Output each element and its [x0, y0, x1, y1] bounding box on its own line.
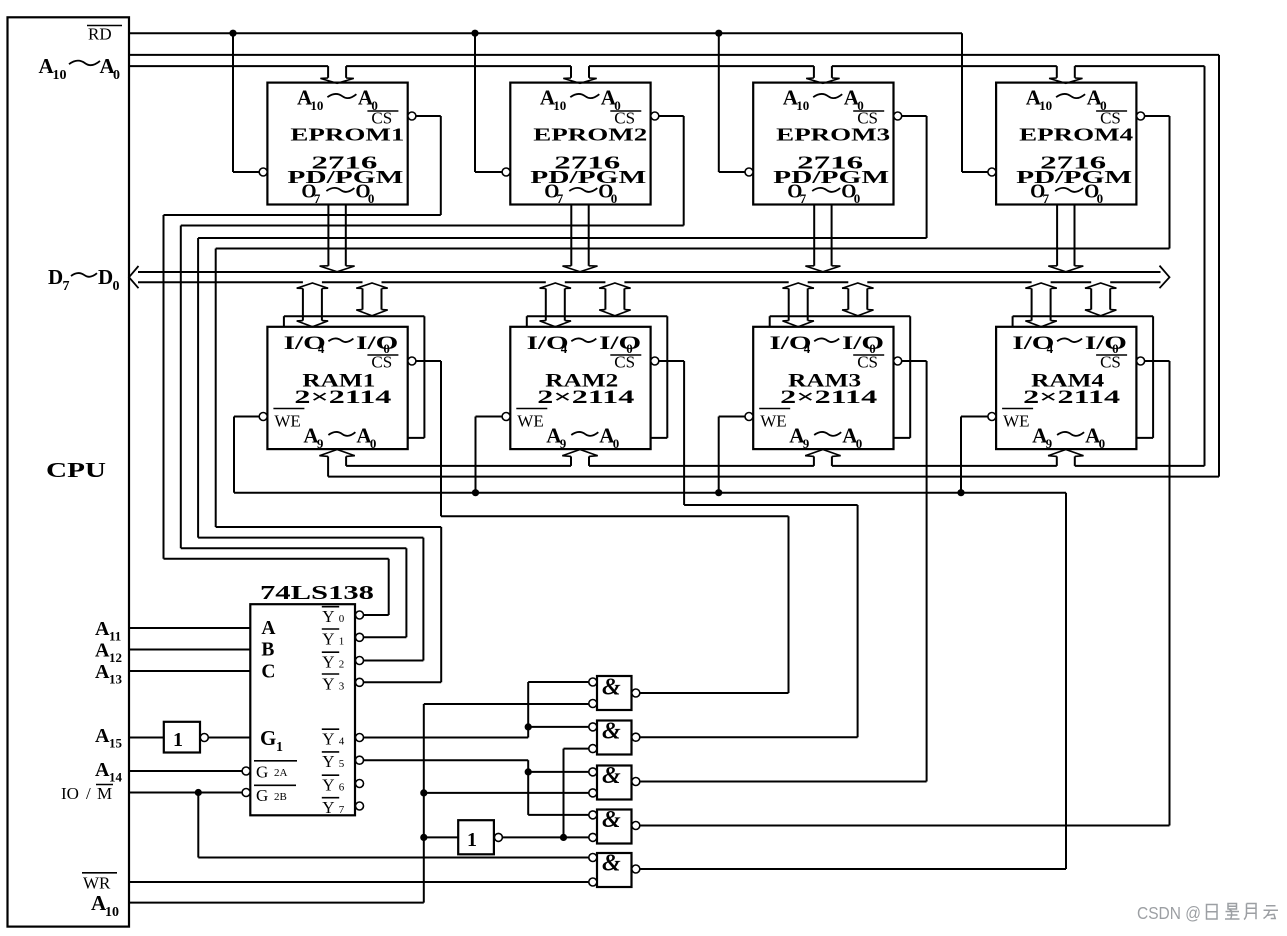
- label A15: [95, 725, 123, 751]
- wire EPROM4 CS to decoder Y3: [216, 116, 1170, 682]
- wire RD drop to EPROM4 PD/PGM: [962, 33, 988, 172]
- svg-text:C: C: [261, 662, 275, 683]
- 74LS138 Y3 output bubble: [356, 678, 364, 686]
- svg-text:CSDN @: CSDN @: [1137, 903, 1201, 923]
- RAM3 CS bubble: [894, 357, 902, 365]
- EPROM1 2716: [267, 83, 407, 206]
- svg-text:2B: 2B: [274, 791, 287, 803]
- svg-text:EPROM4: EPROM4: [1019, 125, 1133, 145]
- label CPU: [46, 458, 106, 482]
- 74LS138 G2A input bubble: [242, 767, 250, 775]
- gate G4 input 2 bubble: [589, 833, 597, 841]
- gate G3 output bubble: [632, 778, 640, 786]
- svg-text:Y: Y: [322, 629, 334, 648]
- wire A15 to inverter U1: [129, 737, 164, 739]
- RAM3 2x2114: [753, 327, 893, 451]
- RAM3 bidirectional data arrow 1: [783, 283, 814, 327]
- svg-text:Y: Y: [322, 752, 334, 771]
- svg-text:7: 7: [339, 804, 345, 816]
- label A11: [95, 618, 121, 644]
- svg-text:I/O: I/O: [599, 333, 641, 354]
- bus D left arrowhead at CPU: [129, 266, 139, 288]
- svg-text:G: G: [256, 763, 268, 782]
- RAM2 CS bubble: [651, 357, 659, 365]
- EPROM3 CS bubble: [894, 112, 902, 120]
- RAM1 WE bubble: [259, 413, 267, 421]
- RAM4 internal bus link wire: [1013, 316, 1154, 438]
- AND gate G2: [597, 719, 632, 755]
- EPROM2 2716: [510, 83, 650, 206]
- junction A10 to gate3 input: [420, 789, 427, 796]
- wire WE common line to gate 5: [234, 493, 1066, 869]
- wire EPROM3 CS to decoder Y2: [198, 116, 927, 661]
- svg-text:14: 14: [109, 770, 123, 785]
- svg-text:10: 10: [796, 98, 809, 113]
- junction A10 to inverter U2: [420, 834, 427, 841]
- svg-text:A: A: [95, 640, 110, 662]
- wire A14 to G2A: [129, 770, 242, 772]
- wire RD drop to EPROM3 PD/PGM: [719, 33, 745, 172]
- 74LS138 Y6 output bubble: [356, 780, 364, 788]
- svg-text:CS: CS: [614, 353, 635, 372]
- RAM2 bidirectional data arrow 2: [599, 283, 630, 316]
- svg-text:7: 7: [1043, 191, 1050, 206]
- svg-text:10: 10: [553, 98, 566, 113]
- junction RD: [471, 30, 478, 37]
- 74LS138 Y7 output bubble: [356, 802, 364, 810]
- svg-text:&: &: [602, 851, 621, 877]
- label IO/M (memory-IO select): [61, 784, 113, 803]
- inverter U1 output bubble: [200, 734, 208, 742]
- wire A10 branch to gate 3 input 2: [424, 792, 589, 794]
- RAM1 CS bubble: [408, 357, 416, 365]
- svg-text:4: 4: [1047, 341, 1054, 356]
- EPROM1 CS bubble: [408, 112, 416, 120]
- label A13: [95, 661, 123, 687]
- svg-text:G: G: [260, 726, 276, 750]
- svg-text:I/O: I/O: [842, 333, 884, 354]
- gate G2 input 1 bubble: [589, 723, 597, 731]
- RAM3 bidirectional data arrow 2: [842, 283, 873, 316]
- wire EPROM2 CS to decoder Y1: [181, 116, 684, 637]
- svg-text:0: 0: [613, 436, 620, 451]
- watermark CJK glyphs: [1207, 904, 1279, 920]
- svg-text:D: D: [98, 265, 113, 289]
- wire A13 to decoder C: [129, 670, 250, 672]
- svg-text:1: 1: [276, 740, 283, 755]
- wire EPROM1 CS to decoder Y0: [164, 116, 441, 615]
- svg-text:Y: Y: [322, 607, 334, 626]
- AND gate G3: [597, 763, 632, 800]
- svg-text:1: 1: [339, 635, 345, 647]
- gate G5 input 1 bubble: [589, 854, 597, 862]
- wire Y4 to gate1/gate2 input 1: [364, 682, 589, 738]
- svg-text:A: A: [95, 725, 110, 747]
- svg-text:4: 4: [561, 341, 568, 356]
- svg-text:CPU: CPU: [46, 458, 106, 482]
- wire Y4 branch to gate 2 input 1: [528, 726, 588, 728]
- label RD (active low): [87, 25, 122, 44]
- svg-text:15: 15: [109, 736, 123, 751]
- junction inverted A10: [560, 834, 567, 841]
- 74LS138 Y1 output bubble: [356, 633, 364, 641]
- gate G4 output bubble: [632, 822, 640, 830]
- EPROM4 address input arrow: [1049, 66, 1082, 83]
- svg-text:WE: WE: [517, 412, 543, 431]
- gate G2 output bubble: [632, 733, 640, 741]
- svg-text:0: 0: [1099, 436, 1106, 451]
- svg-text:7: 7: [314, 191, 321, 206]
- bus RAM address bottom line: [328, 476, 1219, 478]
- inverter U2 output bubble: [494, 833, 502, 841]
- svg-text:I/O: I/O: [1085, 333, 1127, 354]
- wire RAM1 WE drop: [234, 417, 259, 493]
- EPROM4 PD/PGM bubble: [988, 168, 996, 176]
- RAM4 2x2114: [996, 327, 1136, 451]
- wire inverter U1 to G1: [209, 737, 251, 739]
- RAM1 internal bus link wire: [284, 316, 425, 438]
- watermark CSDN: [1137, 903, 1201, 923]
- svg-text:9: 9: [803, 436, 810, 451]
- label WR (active low): [82, 873, 117, 893]
- wire IO/M branch to gate 5 input 1: [198, 793, 588, 858]
- EPROM3 address input arrow: [806, 66, 839, 83]
- label A10 (bottom): [91, 891, 119, 920]
- svg-text:Y: Y: [322, 674, 334, 693]
- svg-text:2: 2: [339, 659, 345, 671]
- wire Y5 to gate3/gate4 input 1: [364, 760, 589, 815]
- RAM1 address input arrow: [319, 450, 354, 477]
- junction IO/M branch: [195, 789, 202, 796]
- svg-text:A: A: [95, 759, 110, 781]
- svg-text:7: 7: [63, 279, 70, 294]
- RAM2 address input arrow: [562, 450, 597, 466]
- svg-text:11: 11: [109, 629, 121, 644]
- svg-text:10: 10: [53, 68, 67, 83]
- svg-text:0: 0: [368, 191, 375, 206]
- svg-text:&: &: [602, 807, 621, 833]
- wire Y5 branch to gate 3 input 1: [528, 771, 588, 773]
- EPROM1 data output arrow to bus: [320, 205, 355, 272]
- RAM2 internal bus link wire: [527, 316, 668, 438]
- RAM1 bidirectional data arrow 2: [356, 283, 387, 316]
- bus right side verticals: [1205, 55, 1220, 477]
- gate G1 input 1 bubble: [589, 678, 597, 686]
- wire inverter U2 to gate 4 input 2: [503, 836, 589, 838]
- bus D7-D0 bottom line with gaps at RAM arrows: [138, 281, 1161, 283]
- RAM2 WE bubble: [502, 413, 510, 421]
- RAM4 WE bubble: [988, 413, 996, 421]
- wire RD drop to EPROM2 PD/PGM: [475, 33, 502, 172]
- EPROM1 PD/PGM bubble: [259, 168, 267, 176]
- wire IO/M to G2B: [129, 792, 242, 794]
- gate G3 input 2 bubble: [589, 789, 597, 797]
- svg-text:2×2114: 2×2114: [537, 388, 634, 408]
- svg-text:4: 4: [804, 341, 811, 356]
- svg-text:A: A: [95, 618, 110, 640]
- inverter U1 (A15): [164, 722, 200, 753]
- EPROM2 CS bubble: [651, 112, 659, 120]
- svg-text:WE: WE: [274, 412, 300, 431]
- svg-text:CS: CS: [371, 353, 392, 372]
- svg-text:12: 12: [109, 650, 122, 665]
- svg-text:0: 0: [370, 436, 377, 451]
- bus RAM address top line with gaps: [346, 465, 1204, 467]
- gate G1 input 2 bubble: [589, 700, 597, 708]
- svg-text:9: 9: [560, 436, 567, 451]
- svg-text:4: 4: [318, 341, 325, 356]
- AND gate G4: [597, 807, 632, 844]
- wire A10 to gates: [129, 704, 588, 903]
- 74LS138 G2B input bubble: [242, 789, 250, 797]
- wire WR to gate 5 input 2: [129, 881, 588, 883]
- svg-text:CS: CS: [857, 353, 878, 372]
- junction WE line: [715, 489, 722, 496]
- label A14: [95, 759, 123, 785]
- EPROM1 address input arrow: [320, 66, 353, 83]
- svg-text:0: 0: [113, 279, 120, 294]
- gate G4 input 1 bubble: [589, 811, 597, 819]
- RAM3 internal bus link wire: [770, 316, 911, 438]
- svg-text:0: 0: [856, 436, 863, 451]
- svg-text:D: D: [48, 265, 63, 289]
- svg-text:2×2114: 2×2114: [294, 388, 391, 408]
- junction RD: [715, 30, 722, 37]
- svg-text:M: M: [97, 784, 112, 803]
- decoder 74LS138: [250, 582, 374, 817]
- svg-text:I/O: I/O: [356, 333, 398, 354]
- EPROM3 2716: [753, 83, 893, 206]
- AND gate G5: [597, 851, 632, 888]
- svg-text:3: 3: [339, 680, 345, 692]
- wire RAM4 WE drop: [961, 417, 988, 493]
- RAM1 2x2114: [267, 327, 407, 451]
- label A10~A0 (CPU address out): [39, 54, 121, 83]
- EPROM4 CS bubble: [1137, 112, 1145, 120]
- junction Y5 to gate 3: [525, 768, 532, 775]
- wire A10 branch to inverter U2: [424, 836, 458, 838]
- svg-text:2×2114: 2×2114: [780, 388, 877, 408]
- svg-text:EPROM1: EPROM1: [290, 125, 404, 145]
- label D7~D0 (CPU data): [48, 265, 120, 294]
- wire A11 to decoder A: [129, 627, 250, 629]
- RAM2 2x2114: [510, 327, 650, 451]
- svg-text:B: B: [261, 640, 274, 661]
- svg-text:&: &: [602, 675, 621, 701]
- svg-text:74LS138: 74LS138: [260, 582, 374, 604]
- EPROM3 PD/PGM bubble: [745, 168, 753, 176]
- svg-text:IO: IO: [61, 784, 79, 803]
- RAM3 address input arrow: [805, 450, 840, 466]
- svg-text:9: 9: [317, 436, 324, 451]
- svg-text:10: 10: [1039, 98, 1052, 113]
- svg-text:Y: Y: [322, 798, 334, 817]
- svg-text:EPROM3: EPROM3: [776, 125, 890, 145]
- gate G1 output bubble: [632, 689, 640, 697]
- svg-text:RD: RD: [88, 25, 112, 44]
- AND gate G1: [597, 675, 632, 711]
- svg-text:WR: WR: [83, 874, 111, 893]
- RAM1 bidirectional data arrow 1: [297, 283, 328, 327]
- EPROM4 data output arrow to bus: [1048, 205, 1083, 272]
- wire RAM1 CS to gate 1 output: [416, 361, 789, 693]
- svg-text:2A: 2A: [274, 767, 288, 779]
- wire RD line: [129, 32, 962, 34]
- wire RD drop to EPROM1 PD/PGM: [233, 33, 259, 172]
- svg-text:9: 9: [1046, 436, 1053, 451]
- svg-text:10: 10: [105, 905, 119, 920]
- svg-text:0: 0: [113, 68, 120, 83]
- bus D right arrowhead: [1160, 266, 1170, 289]
- junction RD: [229, 30, 236, 37]
- label A12: [95, 640, 122, 666]
- EPROM4 2716: [996, 83, 1136, 206]
- svg-text:13: 13: [109, 672, 123, 687]
- svg-text:G: G: [256, 786, 268, 805]
- svg-text:1: 1: [467, 829, 477, 851]
- svg-text:&: &: [602, 763, 621, 789]
- svg-text:&: &: [602, 719, 621, 745]
- junction WE line: [472, 489, 479, 496]
- svg-text:WE: WE: [760, 412, 786, 431]
- inverter U2 (A10): [458, 820, 494, 854]
- RAM4 bidirectional data arrow 1: [1025, 283, 1056, 327]
- wire RAM4 CS to gate 4 output: [640, 361, 1170, 826]
- gate G3 input 1 bubble: [589, 768, 597, 776]
- wire inverted A10 to gate 2 input 2: [564, 749, 589, 838]
- svg-text:10: 10: [310, 98, 323, 113]
- RAM4 CS bubble: [1137, 357, 1145, 365]
- svg-text:0: 0: [339, 613, 345, 625]
- svg-text:7: 7: [557, 191, 564, 206]
- svg-text:A: A: [261, 618, 275, 639]
- RAM4 address input arrow: [1048, 450, 1083, 466]
- CPU box: [8, 17, 130, 926]
- svg-text:A: A: [95, 661, 110, 683]
- svg-text:0: 0: [611, 191, 618, 206]
- 74LS138 Y5 output bubble: [356, 756, 364, 764]
- wire A12 to decoder B: [129, 649, 250, 651]
- junction WE line: [957, 489, 964, 496]
- svg-text:0: 0: [854, 191, 861, 206]
- gate G5 input 2 bubble: [589, 878, 597, 886]
- svg-text:5: 5: [339, 758, 345, 770]
- bus A10-A0 top line: [129, 54, 1219, 56]
- svg-text:1: 1: [173, 729, 183, 751]
- svg-text:CS: CS: [1100, 353, 1121, 372]
- svg-text:6: 6: [339, 782, 345, 794]
- RAM2 bidirectional data arrow 1: [540, 283, 571, 327]
- EPROM2 data output arrow to bus: [563, 205, 598, 272]
- wire RAM2 CS to gate 2 output: [640, 361, 858, 737]
- EPROM2 PD/PGM bubble: [502, 168, 510, 176]
- EPROM2 address input arrow: [563, 66, 596, 83]
- svg-text:7: 7: [800, 191, 807, 206]
- EPROM3 data output arrow to bus: [805, 205, 840, 272]
- svg-text:Y: Y: [322, 730, 334, 749]
- svg-text:2×2114: 2×2114: [1023, 388, 1120, 408]
- wire RAM3 CS to gate 3 output: [640, 361, 927, 782]
- svg-text:4: 4: [339, 736, 345, 748]
- junction Y4 to gate 2: [525, 723, 532, 730]
- svg-text:Y: Y: [322, 653, 334, 672]
- svg-text:EPROM2: EPROM2: [533, 125, 647, 145]
- 74LS138 Y4 output bubble: [356, 734, 364, 742]
- RAM3 WE bubble: [745, 413, 753, 421]
- gate G5 output bubble: [632, 865, 640, 873]
- bus D7-D0 top line: [138, 271, 1161, 273]
- 74LS138 Y2 output bubble: [356, 657, 364, 665]
- gate G2 input 2 bubble: [589, 745, 597, 753]
- RAM4 bidirectional data arrow 2: [1085, 283, 1116, 316]
- wire RAM3 WE drop: [719, 417, 745, 493]
- 74LS138 Y0 output bubble: [356, 611, 364, 619]
- wire RAM2 WE drop: [476, 417, 503, 493]
- svg-text:0: 0: [1097, 191, 1104, 206]
- bus A10-A0 bottom line with gaps at EPROM arrows: [129, 65, 1205, 67]
- svg-text:/: /: [86, 784, 91, 803]
- svg-text:Y: Y: [322, 776, 334, 795]
- svg-text:WE: WE: [1003, 412, 1029, 431]
